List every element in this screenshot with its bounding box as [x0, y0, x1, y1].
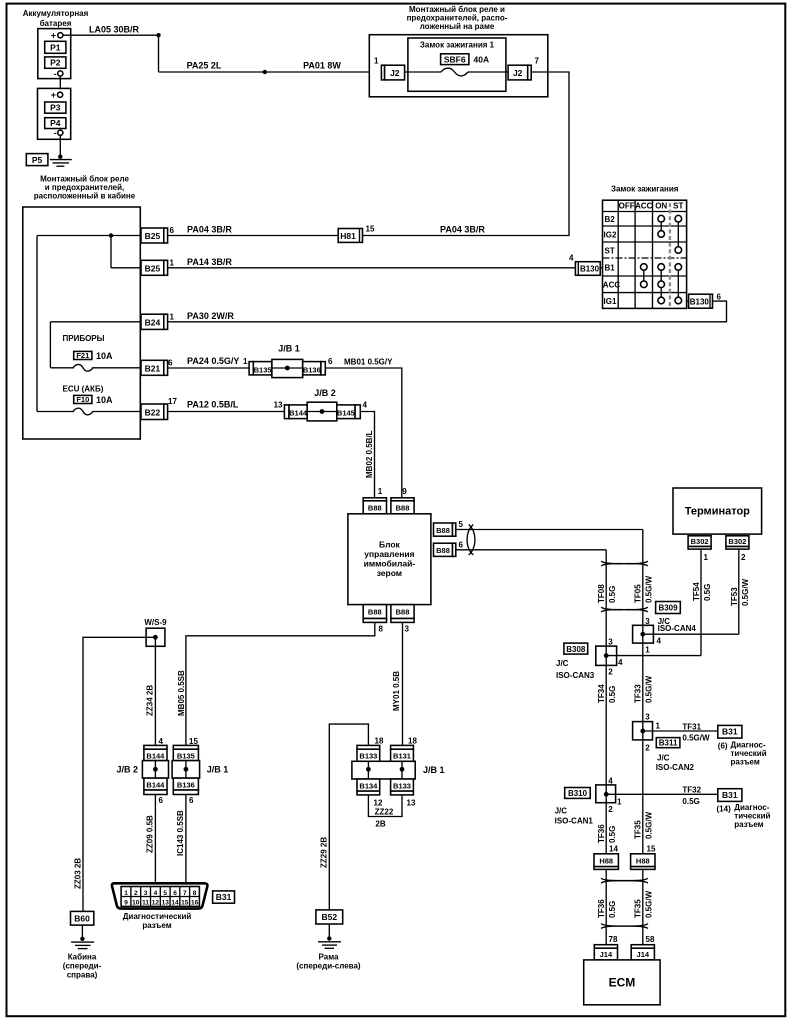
svg-text:6: 6	[173, 890, 177, 897]
svg-text:TF36: TF36	[597, 824, 606, 843]
svg-text:PA01 8W: PA01 8W	[303, 61, 341, 71]
svg-text:6: 6	[170, 226, 175, 235]
svg-text:14: 14	[171, 900, 179, 907]
svg-text:3: 3	[608, 638, 613, 647]
svg-text:ПРИБОРЫ: ПРИБОРЫ	[63, 334, 105, 343]
svg-text:B144: B144	[289, 409, 308, 418]
cab relay block label	[34, 175, 136, 201]
svg-text:4: 4	[569, 254, 574, 263]
svg-text:управления: управления	[364, 549, 414, 559]
battery box 2	[38, 88, 71, 139]
connector H88 pin 15	[631, 845, 656, 870]
svg-text:B130: B130	[580, 265, 600, 274]
svg-text:B88: B88	[368, 608, 382, 617]
wire MY01 0.5B	[392, 622, 403, 745]
svg-text:9: 9	[124, 900, 128, 907]
svg-text:1: 1	[656, 722, 661, 731]
svg-text:B88: B88	[396, 504, 410, 513]
svg-text:MY01 0.5B: MY01 0.5B	[392, 671, 401, 711]
svg-text:B31: B31	[722, 727, 738, 737]
wire ZZ22 2B	[368, 795, 402, 829]
svg-text:10A: 10A	[96, 351, 113, 361]
battery label	[23, 9, 89, 28]
svg-text:J/B 2: J/B 2	[116, 765, 138, 775]
svg-text:6: 6	[459, 541, 464, 550]
svg-text:TF35: TF35	[634, 820, 643, 839]
svg-text:J/C: J/C	[555, 807, 568, 816]
svg-text:+: +	[51, 31, 56, 41]
svg-text:B22: B22	[145, 407, 161, 417]
connector J14 pin 78	[594, 935, 618, 960]
wire IC143 0.5SB	[176, 795, 186, 885]
svg-text:2B: 2B	[375, 820, 385, 829]
svg-text:B2: B2	[605, 215, 616, 224]
junction block J/B 1 right B133/B131	[352, 737, 445, 808]
svg-text:B302: B302	[691, 537, 709, 546]
wire ISO-CAN3 to TF54	[617, 655, 701, 657]
svg-text:ECU (АКБ): ECU (АКБ)	[63, 385, 104, 394]
wire B88-8 to MB05	[186, 622, 375, 745]
svg-text:(6): (6)	[718, 742, 728, 751]
wire PA24 to J/B 1	[168, 367, 250, 369]
svg-text:B21: B21	[145, 363, 161, 373]
svg-text:7: 7	[535, 57, 540, 66]
svg-text:B25: B25	[145, 263, 161, 273]
dashed ON/ST separator	[669, 203, 671, 308]
svg-text:B60: B60	[74, 913, 90, 923]
wire J2-7 to PA04	[363, 72, 570, 236]
svg-text:14: 14	[609, 845, 618, 854]
fusible link P4	[45, 118, 66, 129]
twisted pair symbol	[467, 525, 475, 555]
svg-text:зером: зером	[377, 568, 402, 578]
twisted pair symbol	[601, 607, 648, 612]
svg-text:IG1: IG1	[604, 297, 617, 306]
svg-text:10: 10	[132, 900, 140, 907]
connector B21 pin 6	[141, 359, 173, 376]
svg-text:Блок: Блок	[379, 540, 401, 550]
svg-text:TF35: TF35	[634, 899, 643, 918]
connector B52	[316, 910, 343, 924]
svg-text:B130: B130	[690, 297, 710, 306]
svg-text:расположенный в кабине: расположенный в кабине	[34, 192, 136, 201]
svg-text:1: 1	[704, 553, 709, 562]
svg-text:MB01 0.5G/Y: MB01 0.5G/Y	[344, 358, 393, 367]
wire ISO-CAN4 to TF53	[653, 633, 738, 635]
svg-text:ECM: ECM	[609, 976, 636, 990]
svg-text:TF32: TF32	[682, 786, 701, 795]
wire TF54 0.5G	[692, 549, 712, 656]
svg-text:B52: B52	[322, 912, 338, 922]
connector B130 pin 4	[569, 254, 602, 276]
svg-text:6: 6	[168, 359, 173, 368]
diagnostic connector OBD	[112, 883, 207, 908]
connector B31 (14)	[717, 789, 771, 829]
wire ZZ09 0.5B	[146, 795, 156, 885]
svg-text:B135: B135	[177, 751, 195, 760]
svg-text:TF31: TF31	[682, 722, 701, 731]
connector B130 pin 6	[687, 293, 722, 309]
twisted pair symbol	[601, 561, 648, 566]
wire PA25 2L	[159, 61, 382, 75]
svg-text:TF36: TF36	[597, 899, 606, 918]
wire TF36 0.5G lower	[597, 869, 617, 944]
svg-text:0.5G/W: 0.5G/W	[741, 578, 750, 606]
svg-text:PA24 0.5G/Y: PA24 0.5G/Y	[187, 356, 239, 366]
wire battery1 to battery2	[59, 76, 61, 92]
svg-text:6: 6	[717, 293, 722, 302]
connector B24 pin 1	[141, 313, 175, 330]
battery + terminal 2	[51, 90, 63, 100]
svg-text:B136: B136	[303, 365, 321, 374]
svg-text:ISO-CAN2: ISO-CAN2	[656, 763, 695, 772]
connector B25 pin 6	[141, 226, 175, 243]
svg-text:батарея: батарея	[40, 19, 72, 28]
connector J2 pin 1	[374, 57, 405, 80]
svg-text:SBF6: SBF6	[444, 54, 466, 64]
table row labels	[603, 215, 621, 306]
svg-text:B144: B144	[146, 780, 165, 789]
wire TF36 0.5G upper	[597, 803, 617, 854]
svg-text:1: 1	[170, 259, 175, 268]
svg-text:TF08: TF08	[597, 584, 606, 603]
connector B31 diag	[213, 891, 235, 903]
svg-text:справа): справа)	[67, 971, 98, 980]
wire splice W/S-9	[144, 618, 167, 646]
svg-text:8: 8	[379, 625, 384, 634]
connector B60	[71, 911, 94, 925]
svg-text:2: 2	[645, 744, 650, 753]
svg-text:J2: J2	[513, 68, 523, 78]
svg-text:PA30 2W/R: PA30 2W/R	[187, 311, 234, 321]
wire MB01 0.5G/Y	[325, 358, 402, 498]
immobilizer control unit	[348, 514, 431, 605]
svg-text:17: 17	[168, 397, 177, 406]
ignition relay inner box	[408, 38, 506, 91]
svg-text:4: 4	[657, 637, 662, 646]
wire ZZ03 2B	[74, 637, 147, 911]
wire TF33 0.5G/W	[634, 643, 654, 722]
junction J/C ISO-CAN1	[596, 777, 622, 815]
connector B31 (6)	[718, 725, 767, 766]
ground frame label	[296, 953, 361, 971]
connector B25 pin 1	[141, 259, 175, 276]
svg-text:0.5G/W: 0.5G/W	[645, 675, 654, 703]
svg-text:ISO-CAN3: ISO-CAN3	[556, 671, 595, 680]
svg-text:0.5G: 0.5G	[608, 686, 617, 703]
svg-text:ISO-CAN4: ISO-CAN4	[658, 624, 697, 633]
svg-text:78: 78	[609, 935, 618, 944]
junction J/C ISO-CAN4	[633, 617, 697, 655]
wire LA05 30B/R	[63, 25, 161, 73]
svg-text:15: 15	[366, 225, 375, 234]
twisted pair symbol	[601, 924, 648, 929]
svg-text:2: 2	[741, 553, 746, 562]
svg-text:ZZ22: ZZ22	[375, 808, 394, 817]
diagnostic connector label	[123, 912, 192, 930]
table headers	[619, 202, 684, 211]
junction J/C ISO-CAN2	[633, 713, 661, 753]
svg-text:B88: B88	[436, 526, 450, 535]
svg-text:ST: ST	[605, 246, 615, 255]
svg-text:4: 4	[154, 890, 158, 897]
svg-text:P2: P2	[50, 58, 61, 68]
connector B308 label	[564, 643, 588, 654]
svg-text:B144: B144	[146, 751, 165, 760]
connector P5	[26, 154, 48, 166]
svg-text:1: 1	[378, 487, 383, 496]
junction block J/B 1 vertical B135/B136	[172, 737, 228, 805]
svg-text:H81: H81	[340, 231, 356, 241]
svg-text:TF33: TF33	[634, 684, 643, 703]
svg-text:3: 3	[645, 713, 650, 722]
twisted pair symbol	[601, 878, 648, 883]
svg-text:B302: B302	[728, 537, 746, 546]
svg-text:6: 6	[159, 796, 164, 805]
wire PA04 3B/R	[168, 225, 486, 236]
svg-text:разъем: разъем	[731, 758, 760, 767]
svg-text:6: 6	[328, 357, 333, 366]
battery box 1	[38, 29, 71, 79]
wire TF31 0.5G/W	[653, 722, 718, 742]
svg-text:Аккумуляторная: Аккумуляторная	[23, 9, 89, 18]
svg-text:+: +	[51, 90, 56, 100]
svg-text:LA05 30B/R: LA05 30B/R	[89, 25, 140, 35]
svg-text:J14: J14	[637, 950, 650, 959]
wire TF32 0.5G	[616, 786, 718, 806]
wire ZZ29 2B	[320, 724, 369, 910]
svg-text:11: 11	[142, 900, 149, 907]
svg-text:J14: J14	[600, 950, 613, 959]
terminator box	[673, 488, 762, 534]
switch contact lines	[644, 219, 679, 301]
svg-text:-: -	[54, 128, 57, 138]
svg-text:2: 2	[134, 890, 138, 897]
svg-text:H88: H88	[599, 856, 613, 865]
svg-text:7: 7	[183, 890, 187, 897]
wire B130-6 to B24 PA30	[168, 301, 727, 322]
svg-text:58: 58	[646, 935, 655, 944]
svg-text:иммобилай-: иммобилай-	[364, 559, 416, 569]
connector B88 pin 8	[363, 605, 386, 634]
svg-text:W/S-9: W/S-9	[144, 618, 167, 627]
svg-text:ISO-CAN1: ISO-CAN1	[555, 817, 594, 826]
svg-text:1: 1	[617, 798, 622, 807]
svg-text:3: 3	[405, 625, 410, 634]
svg-text:F21: F21	[76, 351, 89, 360]
svg-text:MB02 0.5B/L: MB02 0.5B/L	[365, 430, 374, 478]
ground battery	[50, 155, 72, 167]
wire MB02 0.5B/L	[360, 412, 374, 498]
svg-text:13: 13	[162, 900, 170, 907]
svg-text:16: 16	[191, 900, 199, 907]
svg-text:J/B 1: J/B 1	[423, 765, 445, 775]
svg-text:B131: B131	[393, 752, 411, 761]
svg-text:6: 6	[189, 796, 194, 805]
battery - terminal 2	[54, 128, 63, 138]
ground frame	[318, 924, 341, 948]
svg-text:TF54: TF54	[692, 582, 701, 601]
svg-text:H88: H88	[636, 856, 650, 865]
svg-text:ложенный на раме: ложенный на раме	[420, 22, 495, 31]
svg-text:1: 1	[124, 890, 128, 897]
junction block J/B 1	[243, 344, 333, 378]
svg-text:40A: 40A	[474, 54, 490, 64]
svg-text:J/C: J/C	[657, 754, 670, 763]
svg-text:0.5G: 0.5G	[703, 584, 712, 601]
svg-text:B1: B1	[605, 263, 616, 272]
svg-text:15: 15	[181, 900, 189, 907]
svg-text:разъем: разъем	[734, 820, 763, 829]
svg-text:B145: B145	[337, 409, 355, 418]
svg-text:OFF: OFF	[619, 202, 635, 211]
fuse F10	[73, 395, 113, 415]
svg-text:TF05: TF05	[634, 584, 643, 603]
connector B88 pin 1	[363, 487, 386, 514]
svg-text:TF53: TF53	[730, 587, 739, 606]
svg-text:1: 1	[374, 57, 379, 66]
svg-text:B134: B134	[359, 781, 378, 790]
svg-text:Рама: Рама	[319, 953, 339, 962]
svg-text:18: 18	[375, 737, 384, 746]
svg-text:PA04 3B/R: PA04 3B/R	[187, 225, 232, 235]
wire PA12 to J/B 2	[168, 411, 285, 413]
wire internal IG1 bus	[50, 322, 141, 368]
svg-text:1: 1	[645, 646, 650, 655]
svg-text:1: 1	[243, 357, 248, 366]
wire ZZ34 2B	[146, 646, 156, 745]
svg-text:0.5G: 0.5G	[682, 797, 699, 806]
svg-text:IC143 0.5SB: IC143 0.5SB	[176, 810, 185, 856]
svg-text:0.5G/W: 0.5G/W	[682, 734, 710, 743]
svg-text:J/B 1: J/B 1	[278, 344, 300, 354]
svg-text:B136: B136	[177, 780, 195, 789]
cab relay block box	[23, 207, 141, 439]
svg-text:10A: 10A	[96, 395, 113, 405]
connector B88 pin 3	[391, 605, 414, 634]
svg-text:Замок зажигания 1: Замок зажигания 1	[420, 41, 495, 50]
junction block J/B 2 vertical B144	[116, 737, 168, 805]
connector B88 pin 9	[391, 487, 414, 514]
battery - terminal 1	[54, 69, 63, 79]
wire PA14 to B130	[168, 267, 576, 269]
svg-text:B135: B135	[254, 365, 272, 374]
svg-text:PA12 0.5B/L: PA12 0.5B/L	[187, 400, 239, 410]
svg-text:P3: P3	[50, 103, 61, 113]
svg-text:ZZ03 2B: ZZ03 2B	[74, 858, 83, 889]
wire TF34 0.5G	[597, 665, 617, 785]
svg-text:B311: B311	[659, 739, 678, 748]
svg-text:J/B 2: J/B 2	[314, 388, 336, 398]
connector H88 pin 14	[594, 845, 618, 870]
svg-text:ZZ29 2B: ZZ29 2B	[320, 837, 329, 868]
svg-text:PA25 2L: PA25 2L	[187, 61, 222, 71]
svg-text:ON: ON	[655, 202, 667, 211]
fusible link P1	[45, 41, 66, 53]
svg-text:8: 8	[193, 890, 197, 897]
svg-text:12: 12	[152, 900, 160, 907]
connector J14 pin 58	[631, 935, 655, 960]
connector B22 pin 17	[141, 397, 177, 420]
junction J/C ISO-CAN3	[556, 638, 623, 681]
svg-text:5: 5	[163, 890, 167, 897]
wire B88-6 CAN low	[456, 549, 606, 551]
svg-text:ST: ST	[673, 202, 683, 211]
svg-text:B88: B88	[396, 608, 410, 617]
svg-text:F10: F10	[76, 395, 89, 404]
svg-text:разъем: разъем	[142, 921, 171, 930]
svg-text:0.5G/W: 0.5G/W	[645, 575, 654, 603]
wire inside frame block	[405, 71, 509, 73]
svg-text:J/B 1: J/B 1	[207, 765, 229, 775]
svg-text:13: 13	[407, 799, 416, 808]
svg-text:5: 5	[459, 520, 464, 529]
svg-text:2: 2	[608, 805, 613, 814]
wire B88-5 CAN high	[456, 529, 643, 531]
connector J2 pin 7	[508, 57, 539, 80]
svg-text:P4: P4	[50, 118, 61, 128]
connector B302 pin 1	[688, 536, 711, 562]
svg-text:ACC: ACC	[635, 202, 653, 211]
svg-text:0.5G/W: 0.5G/W	[645, 811, 654, 839]
fuse SBF6	[441, 54, 489, 65]
battery + terminal 1	[51, 31, 63, 41]
wire TF53 0.5G/W	[730, 549, 750, 634]
ground cab label	[63, 953, 102, 980]
svg-text:PA04 3B/R: PA04 3B/R	[440, 225, 485, 235]
svg-text:ZZ09 0.5B: ZZ09 0.5B	[146, 815, 155, 853]
wire TF05 0.5G/W	[634, 530, 654, 626]
fusible link P3	[45, 102, 66, 113]
svg-text:B31: B31	[216, 892, 232, 902]
svg-text:-: -	[54, 69, 57, 79]
svg-text:B309: B309	[658, 604, 678, 613]
connector B309 label	[656, 602, 681, 614]
svg-text:9: 9	[402, 487, 407, 496]
svg-text:ZZ34 2B: ZZ34 2B	[146, 685, 155, 716]
svg-text:Терминатор: Терминатор	[685, 506, 750, 518]
svg-text:B31: B31	[722, 790, 738, 800]
svg-text:B24: B24	[145, 317, 161, 327]
ignition switch table	[603, 200, 687, 308]
wire battery2 to ground	[59, 135, 61, 156]
svg-text:J/C: J/C	[556, 659, 569, 668]
svg-text:MB05 0.5SB: MB05 0.5SB	[177, 670, 186, 716]
svg-text:4: 4	[363, 401, 368, 410]
wire TF08 0.5G	[597, 550, 617, 646]
svg-text:12: 12	[374, 799, 383, 808]
svg-text:Диагностический: Диагностический	[123, 912, 192, 921]
wire TF35 0.5G/W lower	[634, 869, 654, 944]
svg-text:0.5G: 0.5G	[608, 901, 617, 918]
svg-text:B88: B88	[368, 504, 382, 513]
svg-text:0.5G: 0.5G	[608, 586, 617, 603]
svg-text:PA14 3B/R: PA14 3B/R	[187, 257, 232, 267]
connector B88 pin 5	[434, 520, 464, 536]
svg-text:2: 2	[608, 668, 613, 677]
svg-text:(14): (14)	[717, 805, 732, 814]
fuse SBF6 symbol	[441, 68, 468, 76]
svg-text:4: 4	[618, 658, 623, 667]
svg-text:18: 18	[408, 737, 417, 746]
svg-text:IG2: IG2	[604, 230, 617, 239]
svg-text:ACC: ACC	[603, 281, 621, 290]
svg-text:B310: B310	[568, 789, 588, 798]
wire internal battery bus	[37, 233, 141, 411]
svg-text:Замок зажигания: Замок зажигания	[611, 185, 679, 194]
svg-text:B133: B133	[359, 752, 377, 761]
svg-text:B133: B133	[393, 781, 411, 790]
